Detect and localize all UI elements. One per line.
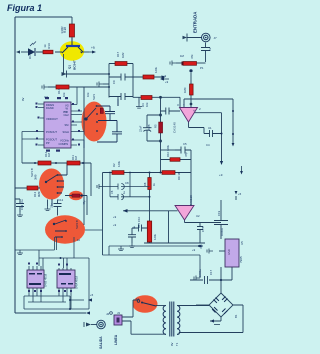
svg-text:9M9: 9M9	[37, 191, 41, 197]
svg-text:POSOUT: POSOUT	[46, 138, 57, 142]
svg-text:+9: +9	[163, 74, 167, 78]
svg-text:+5: +5	[238, 192, 242, 196]
svg-text:U3: U3	[44, 95, 48, 99]
svg-text:U5: U5	[240, 241, 244, 245]
svg-text:DGND: DGND	[46, 106, 54, 110]
svg-text:120k: 120k	[154, 66, 158, 73]
svg-text:ENTRADA: ENTRADA	[193, 11, 198, 33]
svg-text:+9: +9	[165, 80, 169, 84]
svg-text:U4:B 4518: U4:B 4518	[44, 273, 48, 287]
svg-text:Q1: Q1	[68, 65, 72, 69]
svg-text:COMPN: COMPN	[59, 142, 69, 146]
svg-text:1M: 1M	[74, 155, 78, 160]
svg-text:CH2: CH2	[64, 113, 70, 117]
svg-text:PP: PP	[46, 141, 50, 145]
svg-text:330R: 330R	[60, 26, 64, 34]
svg-text:C5: C5	[183, 142, 187, 146]
svg-text:1u: 1u	[132, 225, 136, 229]
svg-text:C8: C8	[125, 181, 129, 185]
svg-text:SW1: SW1	[92, 93, 96, 100]
svg-text:120k: 120k	[153, 233, 157, 240]
svg-text:C4: C4	[206, 143, 210, 147]
svg-text:SM: SM	[65, 123, 69, 127]
svg-text:+9: +9	[113, 215, 117, 219]
svg-text:120k: 120k	[117, 160, 121, 167]
svg-text:GND: GND	[227, 249, 231, 255]
svg-text:LINEA: LINEA	[114, 334, 118, 345]
svg-text:R8: R8	[143, 182, 147, 186]
svg-text:10k: 10k	[86, 92, 90, 97]
svg-text:U1: U1	[208, 126, 212, 130]
svg-text:C12: C12	[58, 198, 64, 202]
svg-text:D1: D1	[28, 55, 32, 59]
svg-text:10: 10	[77, 238, 81, 242]
svg-text:J7: J7	[214, 36, 218, 40]
svg-text:+: +	[193, 109, 195, 113]
svg-text:C6: C6	[110, 190, 114, 194]
svg-text:C17: C17	[209, 269, 213, 275]
svg-text:R17: R17	[116, 51, 120, 57]
svg-text:47p: 47p	[199, 244, 203, 249]
svg-text:R14: R14	[57, 88, 61, 94]
svg-text:VDDOUT: VDDOUT	[46, 117, 58, 121]
svg-text:J2: J2	[106, 312, 110, 316]
svg-text:C19: C19	[217, 210, 221, 216]
svg-text:Figura 1: Figura 1	[7, 3, 42, 13]
svg-text:+5: +5	[90, 293, 94, 297]
svg-text:+9: +9	[113, 223, 117, 227]
svg-text:C2: C2	[208, 47, 212, 51]
svg-text:T1: T1	[175, 342, 179, 346]
svg-text:1M0: 1M0	[183, 87, 187, 93]
svg-text:47p: 47p	[184, 152, 188, 157]
svg-text:1000u: 1000u	[220, 228, 224, 236]
svg-text:R2: R2	[112, 163, 116, 167]
svg-text:SW4:B: SW4:B	[75, 220, 79, 229]
svg-text:R9 1M: R9 1M	[177, 171, 181, 180]
svg-text:CA3140: CA3140	[173, 122, 177, 133]
svg-text:R5: R5	[154, 124, 158, 128]
svg-text:J3: J3	[117, 311, 120, 315]
svg-text:1M: 1M	[180, 54, 185, 58]
svg-text:B1: B1	[234, 314, 238, 318]
svg-text:47p: 47p	[82, 200, 86, 205]
svg-text:22uF: 22uF	[139, 125, 143, 132]
svg-text:C10: C10	[137, 216, 141, 222]
svg-text:33u: 33u	[50, 203, 54, 208]
svg-text:9V: 9V	[170, 342, 174, 346]
svg-text:10k: 10k	[62, 92, 66, 97]
svg-text:C2B: C2B	[147, 124, 151, 130]
svg-text:R15: R15	[137, 222, 141, 228]
svg-text:C13 10u: C13 10u	[20, 199, 24, 210]
svg-text:P1: P1	[200, 66, 204, 70]
svg-text:1M2: 1M2	[121, 52, 125, 58]
svg-text:+9: +9	[219, 173, 223, 177]
svg-text:1M: 1M	[47, 152, 51, 157]
svg-text:3M9: 3M9	[34, 174, 38, 180]
svg-text:BC547: BC547	[73, 60, 77, 70]
svg-text:U2: U2	[196, 214, 200, 218]
svg-text:7905: 7905	[239, 256, 243, 263]
svg-text:C7B: C7B	[201, 226, 205, 232]
svg-text:47k: 47k	[190, 54, 194, 59]
svg-text:+9: +9	[192, 248, 196, 252]
svg-text:SIGH: SIGH	[63, 130, 69, 134]
svg-text:10k: 10k	[145, 102, 149, 107]
svg-text:1000u: 1000u	[198, 269, 202, 277]
svg-text:SALIDA: SALIDA	[99, 336, 103, 349]
svg-text:R19: R19	[47, 43, 51, 49]
svg-text:CA3130: CA3130	[189, 195, 193, 206]
svg-text:SW1:B: SW1:B	[30, 168, 34, 177]
svg-text:R10 120k: R10 120k	[166, 144, 170, 157]
svg-text:C9: C9	[112, 80, 116, 84]
svg-text:U4:A 4518: U4:A 4518	[75, 275, 79, 289]
svg-text:POSOUT: POSOUT	[46, 130, 57, 134]
svg-text:9V: 9V	[21, 97, 25, 101]
svg-text:+9: +9	[91, 46, 95, 50]
svg-text:S1: S1	[136, 297, 140, 301]
